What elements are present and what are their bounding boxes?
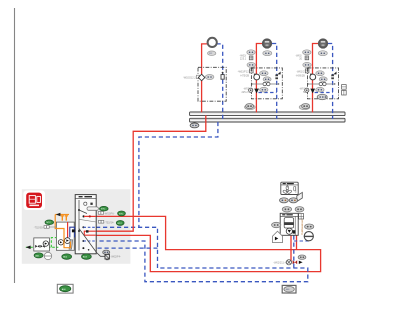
module box — [56, 222, 74, 250]
valve V1 on HK1 supply (diamond) — [198, 74, 205, 81]
wire: HK3 return (blue dashed) — [328, 44, 333, 119]
label ovals above unit — [282, 207, 291, 212]
svg-text:-W01/2: -W01/2 — [296, 70, 305, 73]
label ovals below outdoor unit — [280, 198, 289, 203]
consumer circle HK2 — [263, 39, 272, 48]
svg-text:-W02/F6-: -W02/F6- — [104, 213, 115, 216]
wire: HK2 internal blue dashed link — [259, 92, 277, 94]
NTC sensor label above — [45, 220, 54, 225]
side element — [294, 186, 296, 191]
label oval M HK2 — [263, 77, 271, 82]
check valve (red bowtie) — [293, 260, 298, 264]
wire: storage unit drop blue — [293, 236, 295, 269]
interface boundary box HK3 (dash-dot) — [308, 68, 339, 99]
boiler pill connector — [87, 207, 98, 210]
boiler B1 body — [75, 195, 96, 254]
flow sensor F4 — [103, 250, 110, 254]
expansion vessel (membrane) — [44, 252, 51, 259]
label oval pump HK2 — [260, 87, 268, 92]
sheet frame left border — [14, 8, 16, 283]
arrow on control line — [26, 246, 31, 250]
pump P4 — [43, 241, 48, 246]
valve on HK2 return — [278, 72, 281, 75]
svg-text:-H75/2B: -H75/2B — [240, 75, 250, 78]
consumer circle HK3 — [319, 39, 328, 48]
svg-text:NTC: NTC — [119, 213, 124, 215]
green label below pump group — [34, 253, 43, 258]
expansion vessel right — [304, 232, 313, 241]
indicator oval in box HK3 — [317, 94, 327, 99]
svg-text:225.1: 225.1 — [240, 58, 247, 61]
label oval right of mixer HK3 — [316, 71, 324, 76]
boiler header strip — [75, 198, 96, 200]
orange tap symbols — [61, 216, 64, 221]
mixing valve HK3 — [310, 74, 312, 76]
indoor unit box — [280, 213, 298, 235]
label oval left top HK2 — [247, 50, 255, 55]
label oval left mid HK2 — [247, 62, 255, 67]
svg-text:-W02/212.2: -W02/212.2 — [183, 76, 197, 79]
label oval right of unit — [305, 224, 314, 229]
green dashed control line — [26, 246, 59, 248]
green labels below boiler — [62, 254, 72, 259]
storage cylinder — [284, 218, 293, 228]
sensor square 2 HK3 — [305, 69, 309, 73]
module pump P2 — [58, 240, 63, 245]
valve on HK3 return — [333, 72, 336, 75]
pump HK3 (triangle) — [305, 88, 309, 92]
module internal red riser — [67, 222, 69, 239]
pump group box — [34, 238, 50, 251]
label oval below circle HK3 — [318, 51, 327, 56]
wire: HK2 supply (red) — [256, 44, 262, 113]
wire: storage unit red inverted-U drop — [291, 235, 297, 262]
label oval below circle HK1 — [208, 51, 216, 55]
label oval below circle HK2 — [263, 51, 272, 56]
svg-text:225.2.3: 225.2.3 — [241, 91, 250, 94]
label oval pump HK3 — [316, 87, 324, 92]
right badge (gray) — [282, 285, 296, 293]
mounting flag — [297, 192, 303, 201]
label oval left top HK3 — [303, 50, 311, 55]
circulation pump (circle with X) — [286, 260, 291, 265]
boiler supply node — [83, 215, 85, 217]
label oval M HK3 — [319, 77, 327, 82]
orange drop into module — [55, 215, 70, 248]
boiler bottom sensor node — [82, 247, 84, 249]
supply header bar — [190, 112, 345, 116]
wire: HK2 return (blue dashed) — [272, 44, 277, 119]
wire: HK3 supply (red) — [313, 44, 319, 113]
wire: HK3 internal blue dashed link — [315, 92, 333, 94]
sensor square HK2 — [249, 56, 253, 60]
boiler return node — [82, 226, 84, 228]
wire: HK1 supply (red) — [202, 44, 208, 113]
gray equipment panel background — [22, 189, 131, 264]
boiler sensor line (slanted) — [79, 219, 96, 222]
svg-text:NTC: NTC — [101, 209, 106, 211]
sensor square grid — [299, 214, 304, 219]
boiler internal divider — [78, 200, 80, 251]
label oval right of mixer HK2 — [260, 71, 268, 76]
bypass line HK3 — [308, 83, 335, 85]
label oval on header 2 — [299, 105, 310, 110]
module gray pillar — [69, 240, 73, 249]
valve on HK1 return — [222, 72, 224, 74]
flow arrow — [299, 261, 303, 264]
NTC label row 1 — [100, 206, 109, 211]
svg-text:NTC: NTC — [46, 222, 51, 224]
label oval below box HK2 — [246, 104, 254, 109]
fan symbol — [286, 185, 288, 188]
sensor squares right of HK3 box — [342, 85, 347, 90]
boiler internal switch contact — [78, 209, 80, 211]
label oval at header left end — [190, 123, 199, 128]
wire: boiler return loop to storage unit (blue dashed) — [96, 227, 308, 281]
pump HK2 (triangle) — [249, 88, 253, 92]
wire: HK1 return (blue dashed) — [217, 44, 223, 119]
return header bar — [190, 118, 345, 122]
svg-text:NTC: NTC — [118, 223, 123, 225]
svg-text:Kaltwasser: Kaltwasser — [300, 219, 304, 234]
svg-text:-H09/2B: -H09/2B — [296, 75, 306, 78]
svg-text:-T52/S5-: -T52/S5- — [34, 227, 44, 230]
svg-text:-W02/211.4: -W02/211.4 — [273, 261, 286, 264]
label oval below box HK3 — [302, 104, 310, 109]
wire: return main from manifold to return header line (blue dashed) — [139, 122, 218, 227]
wire: sensor line from F4 to return (blue dashed) — [84, 247, 158, 249]
sensor square 2 HK2 — [250, 69, 254, 73]
interface boundary box HK2 (dash-dot) — [251, 68, 282, 99]
sensor squares + label T52/S4 + NTC — [98, 220, 101, 223]
sensor squares + label -W02/F6 + NTC — [98, 212, 101, 215]
svg-text:-T52/S4-: -T52/S4- — [105, 222, 115, 225]
outdoor unit box — [281, 182, 298, 194]
diagonal link to flow sensor F4 — [79, 229, 105, 257]
boiler display circle — [84, 202, 87, 205]
interface boundary box HK1 (dash-dot) — [198, 67, 226, 101]
orange fill line with arrow — [55, 214, 69, 216]
label oval above arrow — [298, 255, 306, 259]
house symbol — [273, 231, 283, 242]
wire: boiler supply loop to storage unit (red) — [96, 216, 321, 271]
sensor square HK3 — [305, 56, 309, 60]
label oval in box HK1 — [205, 75, 214, 80]
consumer circle HK1 — [208, 38, 217, 47]
boiler lower return node — [82, 240, 84, 242]
white patch behind logo — [24, 191, 46, 211]
module pump P3 — [65, 238, 71, 244]
wire: supply main from manifold to boiler (red) — [96, 115, 206, 231]
svg-text:-W02/F12: -W02/F12 — [238, 70, 250, 73]
label oval left mid HK3 — [303, 62, 311, 67]
shutoff valves (bowties) — [35, 245, 39, 248]
wire: expansion vessel connection (blue dashed) — [294, 239, 309, 241]
bypass line HK2 — [252, 83, 279, 85]
label oval left of unit — [272, 222, 281, 227]
logo badge — [26, 193, 42, 208]
svg-text:-W02/F4-: -W02/F4- — [110, 256, 121, 259]
boiler internal red loop — [84, 231, 96, 235]
pump P5 — [286, 228, 292, 234]
left badge (green) — [57, 284, 73, 293]
module internal blue loop — [70, 227, 75, 237]
mixing valve HK2 — [254, 74, 256, 76]
label oval on header 1 — [245, 105, 256, 110]
